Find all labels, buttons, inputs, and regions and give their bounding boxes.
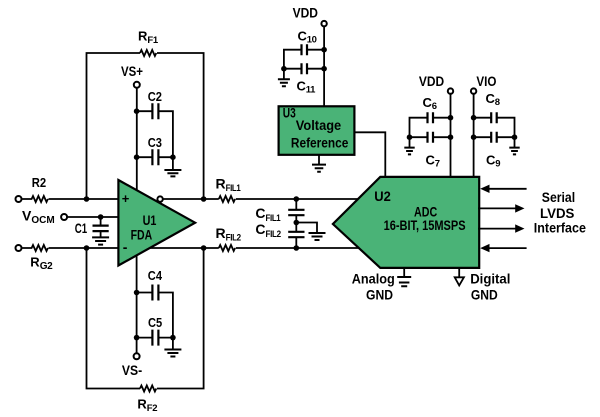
- svg-text:VS+: VS+: [121, 63, 143, 79]
- wire: VDD down to ADC: [450, 94, 452, 177]
- ground (CFIL mid node): [296, 223, 325, 241]
- arrow: serial input 2 (into ADC): [480, 244, 526, 252]
- capacitor C10: [284, 28, 327, 68]
- svg-text:LVDS: LVDS: [540, 206, 574, 221]
- svg-text:FDA: FDA: [131, 227, 153, 242]
- ground (C1): [92, 231, 109, 245]
- svg-text:C4: C4: [148, 268, 163, 283]
- svg-text:U2: U2: [374, 189, 391, 204]
- svg-text:VIO: VIO: [476, 73, 496, 89]
- svg-text:C3: C3: [148, 135, 162, 150]
- wire: R2 to U1 + input: [49, 196, 119, 202]
- terminal RG2 input: [16, 245, 22, 251]
- svg-text:Digital: Digital: [470, 272, 510, 287]
- op-amp U1 FDA: [118, 180, 195, 266]
- wire: RFIL1 to ADC: [236, 196, 358, 202]
- wire: bottom feedback right segment: [157, 248, 204, 389]
- capacitor C5: [134, 293, 176, 353]
- arrow: serial input 1 (into ADC): [480, 185, 526, 193]
- resistor RFIL1: [216, 175, 242, 202]
- ground (C10/C11): [278, 69, 290, 87]
- svg-text:Serial: Serial: [542, 190, 575, 205]
- wire: U1 top output to RFIL1: [163, 196, 219, 202]
- terminal R2 input: [16, 196, 22, 202]
- output bubble on U1 top edge: [157, 196, 162, 201]
- terminal VS-: [122, 353, 143, 378]
- capacitor C7: [407, 132, 454, 170]
- svg-text:VDD: VDD: [419, 73, 444, 89]
- svg-text:16-BIT, 15MSPS: 16-BIT, 15MSPS: [384, 218, 466, 233]
- ground (C8/C9): [509, 137, 519, 154]
- svg-text:Voltage: Voltage: [296, 118, 342, 133]
- terminal VDD (top): [293, 5, 327, 27]
- terminal VIO: [471, 73, 497, 94]
- capacitor C6: [410, 95, 454, 137]
- svg-text:C5: C5: [148, 315, 162, 330]
- arrow: serial output 1: [478, 204, 524, 212]
- svg-text:C2: C2: [148, 89, 162, 104]
- terminal VS+: [121, 63, 143, 88]
- svg-text:VDD: VDD: [293, 5, 318, 21]
- wire: VIO down to ADC: [473, 94, 475, 177]
- capacitor CFIL1: [255, 199, 304, 224]
- capacitor C8: [471, 91, 515, 137]
- svg-text:+: +: [122, 191, 130, 206]
- resistor RG2: [22, 245, 53, 272]
- svg-text:C1: C1: [75, 221, 88, 236]
- capacitor CFIL2: [255, 220, 304, 248]
- wire: RFIL2 to ADC: [236, 245, 359, 251]
- wire: U1 bottom output to RFIL2: [150, 245, 219, 251]
- wire: VOCM to U1: [68, 214, 119, 220]
- ground (C2/C3): [164, 157, 181, 176]
- capacitor C4: [134, 255, 173, 337]
- svg-text:Analog: Analog: [352, 272, 395, 287]
- svg-text:GND: GND: [366, 288, 393, 303]
- capacitor C3: [134, 135, 176, 165]
- ground (C6/C7): [404, 137, 414, 154]
- capacitor C2: [134, 89, 173, 157]
- wire: left feedback bottom vertical: [87, 248, 141, 389]
- wire: left feedback vertical + top-left segment: [87, 53, 141, 199]
- terminal VDD (right): [419, 73, 453, 94]
- ground Digital GND (open triangle): [455, 268, 511, 303]
- svg-text:U1: U1: [143, 212, 157, 228]
- ground Analog GND: [352, 268, 412, 303]
- resistor RFIL2: [216, 225, 241, 251]
- wire: U3 output to ADC: [354, 132, 385, 177]
- capacitor C9: [471, 132, 517, 170]
- svg-text:R2: R2: [32, 175, 46, 190]
- resistor R2: [22, 175, 48, 202]
- label Serial LVDS Interface: [534, 190, 587, 236]
- voltage reference U3: [279, 105, 355, 155]
- svg-text:VS-: VS-: [122, 362, 143, 378]
- wire: VS+ feed down to U1: [136, 88, 138, 191]
- svg-text:U3: U3: [283, 105, 296, 121]
- ground (C4/C5): [164, 338, 181, 357]
- resistor RF1: [138, 29, 159, 56]
- svg-text:Interface: Interface: [534, 220, 587, 235]
- wire: top feedback right segment + right vertical: [157, 53, 204, 199]
- wire: VDD down to U3: [323, 26, 325, 106]
- ADC U2: [333, 177, 479, 268]
- svg-text:GND: GND: [471, 288, 498, 303]
- svg-text:Reference: Reference: [291, 135, 349, 150]
- svg-text:-: -: [123, 239, 128, 255]
- arrow: serial output 2: [478, 224, 524, 232]
- ground (U3): [312, 155, 326, 172]
- capacitor C1: [75, 217, 109, 236]
- terminal VOCM: [22, 208, 67, 226]
- wire: RG2 to U1 - input: [49, 245, 119, 251]
- capacitor C11: [281, 63, 327, 95]
- resistor RF2: [137, 386, 157, 414]
